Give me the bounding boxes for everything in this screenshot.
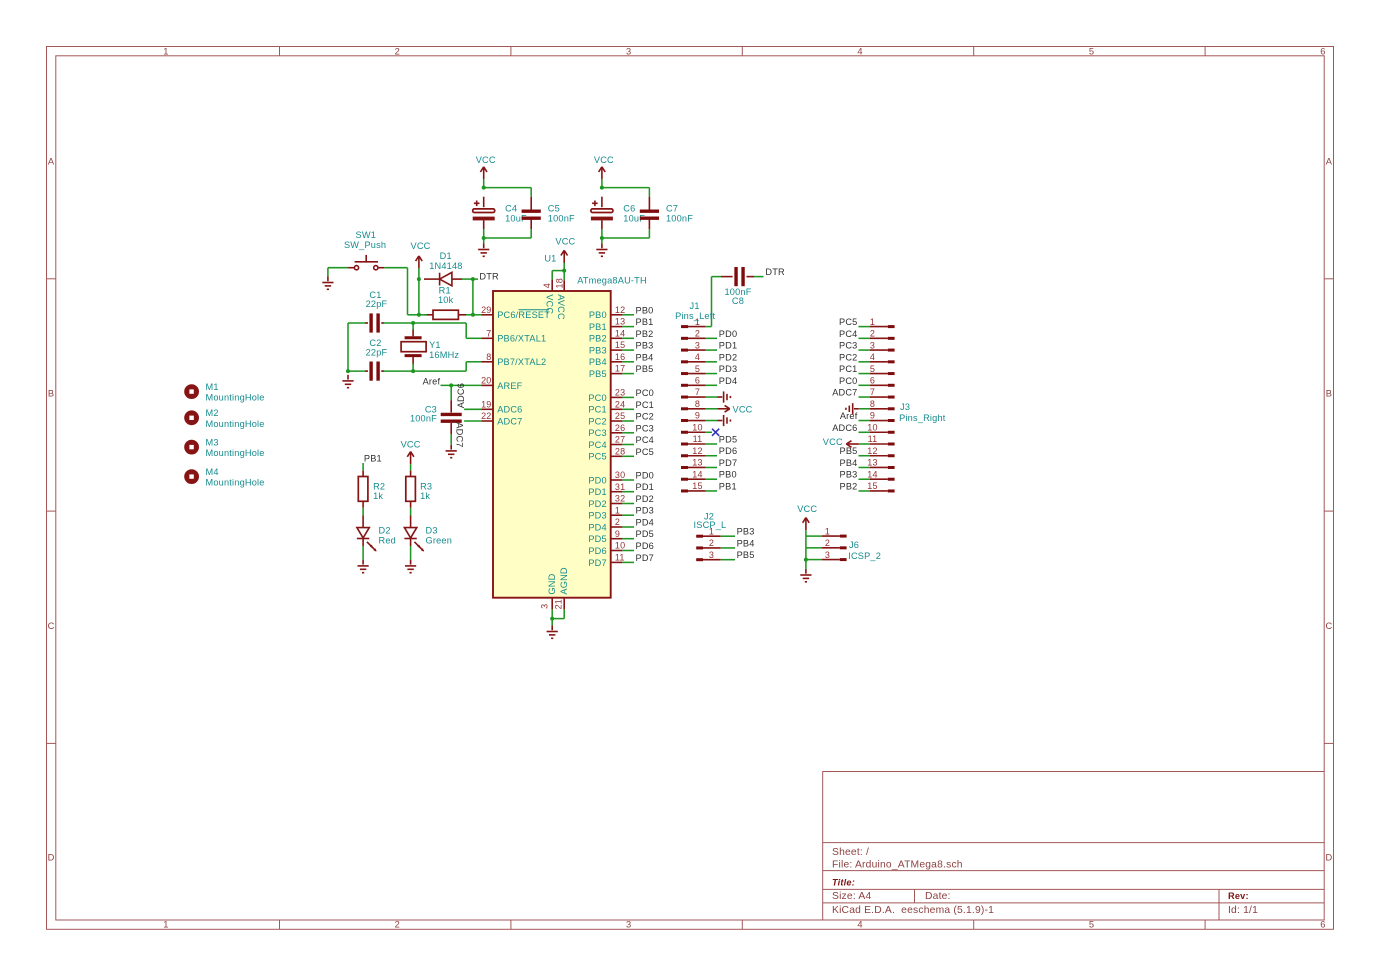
U1 pin 12 PB0 — [589, 305, 625, 320]
U1 pin 30 PD0 — [588, 470, 625, 485]
wire at U1 pin 11 — [622, 561, 634, 563]
capacitor C8 leads — [721, 276, 733, 278]
svg-text:C8: C8 — [732, 296, 744, 306]
svg-text:PB5: PB5 — [737, 550, 755, 560]
svg-text:Id: 1/1: Id: 1/1 — [1228, 905, 1258, 916]
capacitor C4 leads — [483, 197, 485, 208]
svg-text:MountingHole: MountingHole — [206, 419, 265, 429]
svg-text:1: 1 — [163, 47, 168, 57]
svg-text:7: 7 — [486, 328, 491, 338]
svg-text:9: 9 — [615, 529, 620, 539]
ground at D3 — [405, 560, 416, 573]
svg-text:C6: C6 — [623, 203, 635, 213]
svg-text:3: 3 — [695, 340, 700, 350]
resistor R3 body — [406, 477, 416, 502]
svg-text:19: 19 — [481, 399, 491, 409]
wire at U1 pin 1 — [622, 514, 634, 516]
power VCC at J3 pin 11 — [846, 441, 859, 448]
wire — [551, 609, 553, 625]
resistor R2 body — [358, 477, 368, 502]
svg-text:Title:: Title: — [832, 877, 855, 887]
svg-text:PB1: PB1 — [719, 481, 737, 491]
svg-text:PD7: PD7 — [719, 458, 737, 468]
svg-text:C5: C5 — [548, 203, 560, 213]
mounting hole M1 — [184, 382, 264, 403]
ground at J3 pin 8 — [846, 403, 859, 414]
svg-text:AREF: AREF — [497, 381, 522, 391]
wire — [711, 277, 713, 327]
LED D3 — [404, 528, 424, 552]
svg-text:PB3: PB3 — [737, 527, 755, 537]
wire at J3 pin 15 — [859, 490, 871, 492]
wire at U1 pin 27 — [622, 444, 634, 446]
J3 pin 13 — [867, 458, 894, 468]
wire at U1 pin 24 — [622, 408, 634, 410]
svg-text:ADC7: ADC7 — [455, 422, 465, 447]
J3 pin 15 — [867, 481, 894, 491]
U1 pin 3 GND — [540, 573, 558, 609]
U1 pin 20 AREF — [481, 376, 523, 391]
svg-text:J3: J3 — [900, 402, 910, 412]
svg-text:PD1: PD1 — [719, 341, 737, 351]
junction — [417, 313, 421, 317]
wire — [602, 187, 650, 189]
capacitor C2 leads — [365, 370, 368, 372]
resistor R1 body — [433, 310, 458, 319]
wire — [464, 408, 481, 410]
U1 pin 14 PB2 — [589, 328, 625, 343]
svg-text:PD5: PD5 — [588, 534, 606, 544]
wire — [602, 237, 650, 239]
svg-text:PD5: PD5 — [636, 529, 654, 539]
svg-text:1k: 1k — [373, 491, 383, 501]
svg-text:VCC: VCC — [823, 437, 843, 447]
wire at U1 pin 17 — [622, 373, 634, 375]
svg-text:ADC6: ADC6 — [456, 383, 466, 408]
wire at J2 pin 3 — [721, 559, 735, 561]
svg-text:AVCC: AVCC — [556, 294, 566, 320]
svg-text:11: 11 — [693, 434, 703, 444]
svg-text:D: D — [1325, 853, 1332, 863]
svg-text:18: 18 — [555, 278, 565, 288]
svg-text:PC3: PC3 — [839, 341, 857, 351]
svg-text:PD3: PD3 — [636, 506, 654, 516]
wire at J2 pin 2 — [721, 547, 735, 549]
svg-text:2: 2 — [615, 517, 620, 527]
svg-text:PB2: PB2 — [636, 329, 654, 339]
wire at U1 pin 23 — [622, 396, 634, 398]
svg-text:PD6: PD6 — [719, 446, 737, 456]
svg-text:PB2: PB2 — [589, 334, 607, 344]
svg-text:ATmega8AU-TH: ATmega8AU-TH — [577, 275, 647, 285]
junction — [411, 369, 415, 373]
svg-text:PB3: PB3 — [589, 346, 607, 356]
svg-text:ADC6: ADC6 — [497, 405, 522, 415]
wire — [384, 267, 407, 269]
svg-text:PB3: PB3 — [636, 341, 654, 351]
wire at J6 pin 2 — [806, 547, 822, 549]
wire at J3 pin 10 — [859, 431, 871, 433]
svg-text:3: 3 — [870, 340, 875, 350]
svg-text:16MHz: 16MHz — [429, 350, 459, 360]
capacitor C8 — [736, 267, 743, 286]
wire at J3 pin 6 — [859, 384, 871, 386]
svg-text:PD3: PD3 — [719, 364, 737, 374]
wire — [418, 268, 420, 279]
svg-text:PC0: PC0 — [839, 376, 857, 386]
svg-text:4: 4 — [870, 352, 875, 362]
svg-text:ADC7: ADC7 — [497, 416, 522, 426]
svg-text:PB1: PB1 — [636, 317, 654, 327]
svg-text:10: 10 — [615, 541, 625, 551]
wire at U1 pin 12 — [622, 314, 634, 316]
svg-text:1: 1 — [870, 317, 875, 327]
svg-text:15: 15 — [867, 481, 877, 491]
wire at U1 pin 32 — [622, 503, 634, 505]
svg-text:Date:: Date: — [925, 891, 951, 902]
J1 pin 5 — [681, 364, 706, 374]
J3 pin 10 — [867, 422, 894, 432]
svg-text:13: 13 — [692, 458, 702, 468]
wire at U1 pin 26 — [622, 432, 634, 434]
capacitor C6 (polarized) — [591, 201, 613, 221]
ground at U1 — [547, 625, 558, 638]
U1 pin 25 PC2 — [588, 411, 625, 426]
svg-text:3: 3 — [825, 550, 830, 560]
wire at J3 pin 5 — [859, 373, 871, 375]
wire — [648, 229, 650, 238]
wire — [805, 530, 807, 536]
svg-text:14: 14 — [692, 469, 702, 479]
svg-text:PC1: PC1 — [636, 400, 654, 410]
svg-text:6: 6 — [870, 376, 875, 386]
svg-text:PC4: PC4 — [839, 329, 857, 339]
switch SW1 — [344, 230, 386, 270]
svg-text:2: 2 — [695, 329, 700, 339]
wire — [483, 238, 485, 243]
wire — [601, 238, 603, 243]
J2 pin 2 — [696, 538, 721, 548]
svg-text:21: 21 — [554, 599, 564, 609]
svg-text:PC3: PC3 — [636, 423, 654, 433]
wire — [362, 546, 364, 560]
J1 pin 8 — [681, 399, 706, 409]
power VCC at R3 — [407, 452, 414, 465]
capacitor C1 — [371, 313, 378, 332]
wire — [407, 268, 409, 315]
J3 pin 6 — [870, 376, 895, 386]
svg-text:6: 6 — [695, 376, 700, 386]
wire — [408, 314, 419, 316]
svg-text:PB1: PB1 — [364, 453, 382, 463]
svg-text:D2: D2 — [379, 526, 391, 536]
wire — [648, 188, 650, 197]
svg-text:1: 1 — [709, 526, 714, 536]
J3 pin 14 — [867, 469, 894, 479]
mounting hole M3 — [184, 437, 264, 458]
svg-text:1: 1 — [695, 317, 700, 327]
wire at U1 pin 31 — [622, 491, 634, 493]
svg-text:MountingHole: MountingHole — [206, 478, 265, 488]
U1 pin 7 PB6/XTAL1 — [481, 328, 546, 343]
wire — [410, 508, 412, 516]
J1 pin 1 — [681, 317, 706, 327]
svg-text:A: A — [1326, 156, 1333, 166]
svg-text:Y1: Y1 — [429, 340, 441, 350]
J3 pin 8 — [870, 399, 895, 409]
svg-text:Pins_Right: Pins_Right — [899, 413, 946, 423]
wire — [483, 229, 485, 238]
wire at J3 pin 3 — [859, 349, 871, 351]
title block text — [832, 847, 1258, 916]
svg-text:8: 8 — [695, 399, 700, 409]
svg-text:VCC: VCC — [594, 155, 614, 165]
svg-text:PB5: PB5 — [840, 446, 858, 456]
wire at J1 pin 15 — [706, 490, 717, 492]
J1 pin 13 — [681, 458, 706, 468]
power VCC at J6 — [803, 518, 810, 531]
svg-text:23: 23 — [615, 388, 625, 398]
svg-text:PD1: PD1 — [588, 487, 606, 497]
svg-text:3: 3 — [626, 920, 631, 930]
wire at J1 pin 6 — [706, 384, 717, 386]
resistor R3 — [411, 471, 433, 508]
svg-text:SW1: SW1 — [356, 230, 377, 240]
wire at J3 pin 12 — [859, 455, 871, 457]
wire — [552, 270, 564, 272]
J2 pin 1 — [696, 526, 721, 536]
svg-text:6: 6 — [1320, 920, 1325, 930]
capacitor C1 leads — [365, 322, 368, 324]
junction — [471, 277, 475, 281]
wire — [472, 279, 474, 315]
svg-text:PD0: PD0 — [636, 471, 654, 481]
svg-text:8: 8 — [486, 352, 491, 362]
svg-text:AGND: AGND — [559, 567, 569, 595]
svg-text:PD4: PD4 — [588, 522, 606, 532]
wire at J6 pin 3 — [806, 559, 822, 561]
resistor R2 — [363, 471, 385, 508]
wire — [362, 508, 364, 516]
svg-text:M1: M1 — [206, 382, 219, 392]
svg-text:PB0: PB0 — [636, 305, 654, 315]
svg-text:PC5: PC5 — [588, 452, 606, 462]
svg-text:B: B — [48, 389, 54, 399]
wire J1 pin 1 to C8 — [706, 326, 712, 328]
svg-text:GND: GND — [547, 573, 557, 594]
wire — [465, 362, 467, 371]
svg-text:100nF: 100nF — [410, 413, 437, 423]
svg-text:File: Arduino_ATMega8.sch: File: Arduino_ATMega8.sch — [832, 860, 963, 871]
wire at U1 pin 2 — [622, 526, 634, 528]
wire — [754, 276, 764, 278]
svg-text:VCC: VCC — [476, 155, 496, 165]
wire — [552, 618, 564, 620]
wire — [410, 464, 412, 471]
op-amp U1 body (ATmega8 MCU) — [493, 291, 611, 598]
svg-text:3: 3 — [709, 550, 714, 560]
svg-text:PC2: PC2 — [636, 412, 654, 422]
J1 pin 7 — [681, 387, 706, 397]
svg-text:5: 5 — [695, 364, 700, 374]
svg-text:VCC: VCC — [401, 439, 421, 449]
U1 pin 19 ADC6 — [481, 399, 522, 414]
svg-text:VCC: VCC — [733, 404, 753, 414]
ground at C4 — [478, 243, 489, 256]
svg-text:KiCad E.D.A. eeschema (5.1.9): KiCad E.D.A. eeschema (5.1.9)-1 — [832, 905, 994, 916]
svg-text:9: 9 — [870, 411, 875, 421]
junction — [471, 313, 475, 317]
svg-text:11: 11 — [615, 553, 625, 563]
wire — [462, 278, 473, 280]
wire at J1 pin 11 — [706, 443, 717, 445]
wire at J3 pin 1 — [859, 326, 871, 328]
mounting hole M2 — [184, 408, 264, 429]
svg-text:25: 25 — [615, 411, 625, 421]
svg-text:PD0: PD0 — [719, 329, 737, 339]
U1 pin 15 PB3 — [589, 340, 625, 355]
svg-text:PD0: PD0 — [588, 475, 606, 485]
J2 pin 3 — [696, 550, 721, 560]
J1 pin 14 — [681, 469, 706, 479]
U1 pin 22 ADC7 — [481, 411, 522, 426]
junction — [482, 186, 486, 190]
J1 pin 4 — [681, 352, 706, 362]
svg-text:R2: R2 — [373, 481, 385, 491]
J1 pin 15 — [681, 481, 706, 491]
wire — [464, 420, 481, 422]
wire at J3 pin 13 — [859, 466, 871, 468]
wire at J2 pin 1 — [721, 535, 735, 537]
junction — [600, 186, 604, 190]
svg-text:PB2: PB2 — [840, 481, 858, 491]
svg-text:15: 15 — [692, 481, 702, 491]
svg-text:PC4: PC4 — [588, 440, 606, 450]
svg-text:PB5: PB5 — [589, 369, 607, 379]
wire at U1 pin 10 — [622, 550, 634, 552]
svg-text:PD6: PD6 — [588, 546, 606, 556]
wire at U1 pin 15 — [622, 349, 634, 351]
svg-text:PC2: PC2 — [588, 416, 606, 426]
svg-text:12: 12 — [615, 305, 625, 315]
wire at J3 pin 7 — [859, 396, 871, 398]
svg-text:26: 26 — [615, 423, 625, 433]
svg-text:17: 17 — [615, 364, 625, 374]
svg-text:PD2: PD2 — [719, 352, 737, 362]
svg-text:PD6: PD6 — [636, 541, 654, 551]
svg-text:Rev:: Rev: — [1228, 891, 1249, 901]
svg-text:12: 12 — [692, 446, 702, 456]
J1 pin 10 — [681, 422, 706, 432]
svg-text:D3: D3 — [426, 526, 438, 536]
svg-text:1: 1 — [615, 505, 620, 515]
ground at C6 — [596, 243, 607, 256]
wire — [419, 314, 427, 316]
wire — [450, 434, 452, 445]
svg-text:29: 29 — [481, 305, 491, 315]
J3 pin 7 — [870, 387, 895, 397]
svg-text:20: 20 — [481, 376, 491, 386]
U1 pin 24 PC1 — [588, 399, 625, 414]
wire — [484, 187, 532, 189]
svg-text:VCC: VCC — [797, 504, 817, 514]
svg-text:15: 15 — [615, 340, 625, 350]
wire at U1 pin 30 — [622, 479, 634, 481]
svg-text:10: 10 — [692, 422, 702, 432]
svg-text:5: 5 — [1089, 920, 1094, 930]
svg-text:PC0: PC0 — [588, 393, 606, 403]
wire — [805, 560, 807, 569]
U1 pin 21 AGND — [554, 567, 569, 609]
svg-text:12: 12 — [867, 446, 877, 456]
svg-text:D: D — [48, 853, 55, 863]
U1 pin 9 PD5 — [588, 529, 622, 544]
U1 pin 29 PC6/RESET — [481, 305, 550, 320]
U1 pin 28 PC5 — [588, 446, 625, 461]
svg-text:28: 28 — [615, 446, 625, 456]
svg-text:1: 1 — [163, 920, 168, 930]
wire at U1 pin 28 — [622, 455, 634, 457]
svg-text:M4: M4 — [206, 467, 219, 477]
svg-text:J1: J1 — [690, 301, 700, 311]
wire — [418, 279, 420, 315]
svg-text:11: 11 — [868, 434, 878, 444]
wire — [473, 278, 478, 280]
svg-text:4: 4 — [857, 47, 862, 57]
svg-text:PB3: PB3 — [840, 470, 858, 480]
wire at U1 pin 16 — [622, 361, 634, 363]
wire — [384, 322, 413, 324]
wire — [601, 229, 603, 238]
wire — [412, 323, 414, 330]
U1 pin 16 PB4 — [589, 352, 625, 367]
wire — [413, 370, 466, 372]
svg-text:14: 14 — [867, 469, 877, 479]
svg-text:4: 4 — [857, 920, 862, 930]
svg-text:C: C — [48, 621, 55, 631]
wire at J6 pin 1 — [806, 535, 822, 537]
svg-text:PC1: PC1 — [839, 364, 857, 374]
wire — [484, 237, 532, 239]
svg-text:R3: R3 — [420, 481, 432, 491]
svg-text:C: C — [1325, 621, 1332, 631]
capacitor C2 — [371, 362, 378, 381]
ground at J1 pin 9 — [718, 415, 731, 426]
wire at J3 pin 14 — [859, 478, 871, 480]
capacitor C3 — [410, 400, 451, 434]
crystal Y1 — [401, 329, 459, 365]
wire — [530, 229, 532, 238]
J3 pin 12 — [867, 446, 894, 456]
J1 pin 6 — [681, 376, 706, 386]
wire at J3 pin 2 — [859, 337, 871, 339]
svg-text:SW_Push: SW_Push — [344, 240, 386, 250]
wire at J3 pin 8 — [859, 408, 870, 410]
wire — [551, 271, 553, 280]
svg-text:PB6/XTAL1: PB6/XTAL1 — [497, 334, 546, 344]
wire at U1 pin 14 — [622, 337, 634, 339]
power VCC at U1 — [561, 250, 568, 262]
U1 pin 17 PB5 — [589, 364, 625, 379]
capacitor C7 — [640, 211, 659, 218]
wire at J1 pin 9 — [706, 420, 718, 422]
svg-text:PC5: PC5 — [636, 447, 654, 457]
wire at J1 pin 2 — [706, 337, 717, 339]
svg-text:PB5: PB5 — [636, 364, 654, 374]
svg-text:27: 27 — [615, 435, 625, 445]
svg-text:5: 5 — [870, 364, 875, 374]
power VCC at C6 — [599, 167, 606, 180]
